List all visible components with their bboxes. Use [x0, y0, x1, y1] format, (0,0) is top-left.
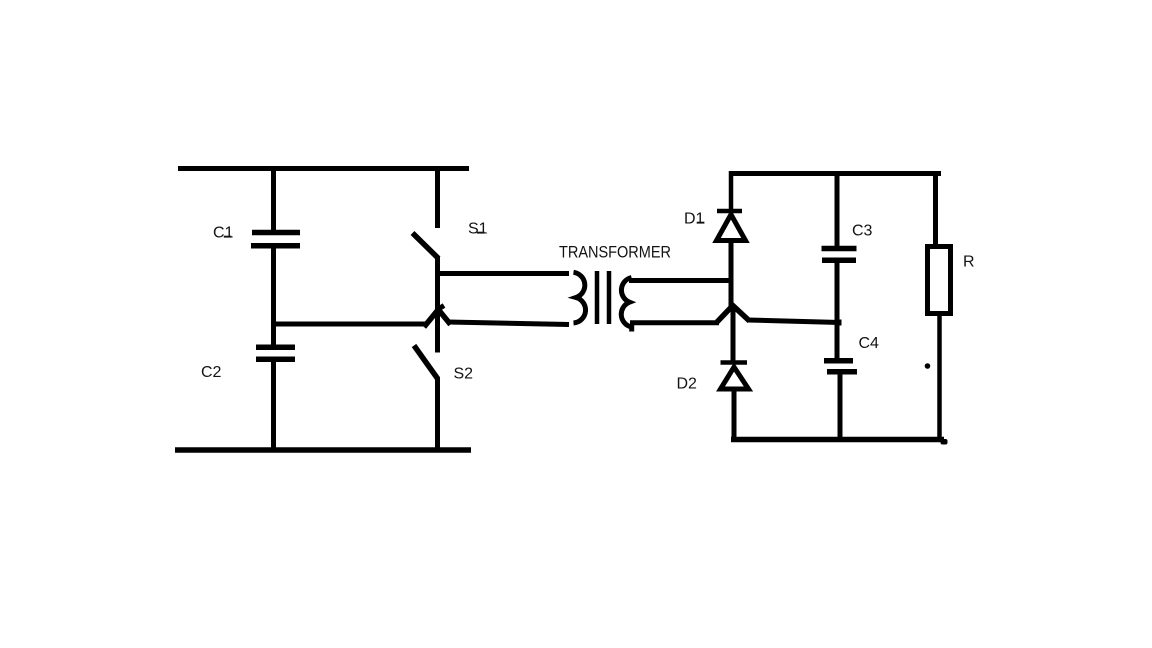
wire: top rail to C1: [271, 166, 276, 232]
label S1: [468, 221, 488, 238]
transformer T1 primary winding: [574, 272, 586, 323]
wire: node to C4: [835, 322, 840, 358]
svg-text:C1: C1: [213, 225, 234, 242]
transformer core: [597, 271, 609, 324]
wire: left top rail: [178, 166, 469, 171]
diode D2: [721, 363, 749, 390]
svg-text:R: R: [963, 253, 975, 270]
transformer T1 secondary winding: [621, 278, 631, 332]
wire: diode node down to D2: [731, 308, 736, 361]
wire: switch midpoint to transformer primary top: [437, 271, 569, 276]
wire: midpoint node to C2: [271, 322, 276, 345]
junction caret at diode node: [717, 306, 750, 323]
wire: midpoint horizontal to switch leg: [271, 322, 427, 327]
wire: transformer secondary bottom to output node: [630, 320, 719, 325]
label D1: [684, 211, 705, 228]
diode D1: [717, 211, 746, 241]
capacitor C4: [824, 361, 857, 372]
wire: D1 to secondary node: [729, 240, 734, 307]
svg-text:C4: C4: [859, 335, 880, 352]
wire: R to bottom rail: [937, 313, 942, 441]
node dot near R leg: [925, 363, 931, 369]
label C1: [213, 225, 234, 242]
wire: C1 to midpoint node: [271, 248, 276, 326]
capacitor C2: [256, 347, 295, 359]
svg-text:TRANSFORMER: TRANSFORMER: [559, 244, 671, 262]
switch S1: [413, 166, 439, 259]
svg-text:D1: D1: [684, 211, 705, 228]
wire: switch midpoint leg: [435, 257, 440, 353]
wire: top rail to C3: [835, 171, 840, 247]
wire: left bottom rail: [175, 447, 471, 453]
wire: C2 to bottom rail: [271, 362, 276, 453]
wire: transformer secondary top to diode branch: [629, 278, 733, 283]
svg-text:S1: S1: [468, 221, 488, 238]
wire: C3 to output node: [835, 263, 840, 325]
svg-text:C2: C2: [201, 364, 222, 381]
junction dot at C4 node: [836, 320, 842, 326]
svg-text:S2: S2: [454, 365, 474, 382]
wire: C4 to bottom rail: [838, 374, 843, 441]
wire: top rail to D1: [729, 171, 734, 210]
resistor R: [928, 247, 951, 314]
svg-text:D2: D2: [677, 376, 698, 393]
wire: right top rail: [729, 171, 941, 176]
wire: diode node to C4 branch: [748, 320, 840, 323]
capacitor C3: [822, 249, 857, 261]
junction caret at switch node: [424, 306, 451, 328]
wire: top rail to R: [933, 171, 938, 245]
wire: node to transformer primary bottom: [448, 322, 569, 325]
wire: right bottom rail: [731, 439, 948, 445]
wire: D2 to bottom rail: [732, 389, 737, 441]
capacitor C1: [251, 233, 300, 246]
switch S2: [414, 346, 438, 453]
svg-text:C3: C3: [852, 223, 873, 240]
